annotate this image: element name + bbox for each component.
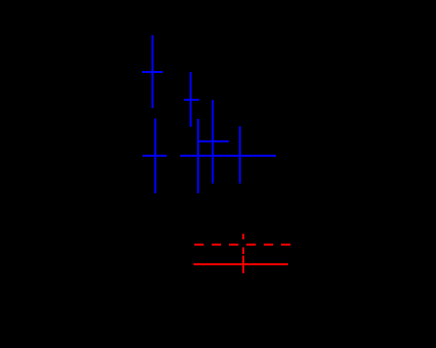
P3 horizontal error bar (198, 140, 229, 142)
P3 vertical error bar (212, 100, 214, 184)
blue merged horizontal error bar of P4 and P5 (180, 155, 276, 157)
red dashed errorbar point R1 (194, 234, 291, 254)
R1 dashed vertical error bar (242, 234, 244, 254)
R2 horizontal error bar (193, 263, 288, 265)
blue errorbar point P6 (143, 119, 167, 194)
P1 horizontal error bar (142, 71, 163, 73)
P2 horizontal error bar (184, 99, 199, 101)
blue errorbar point P3 (198, 100, 229, 184)
P6 vertical error bar (154, 119, 156, 194)
blue errorbar point P1 (top) (142, 35, 163, 108)
blue errorbar point P5 vertical error bar (239, 126, 241, 183)
P1 vertical error bar (152, 35, 154, 108)
red solid errorbar point R2 (193, 256, 288, 274)
blue errorbar point P2 (184, 72, 199, 127)
P2 vertical error bar (190, 72, 192, 127)
blue errorbar point P4 vertical error bar (197, 119, 199, 193)
R2 vertical error bar (242, 256, 244, 274)
P6 horizontal error bar (143, 155, 167, 157)
R1 dashed horizontal error bar (194, 244, 291, 246)
